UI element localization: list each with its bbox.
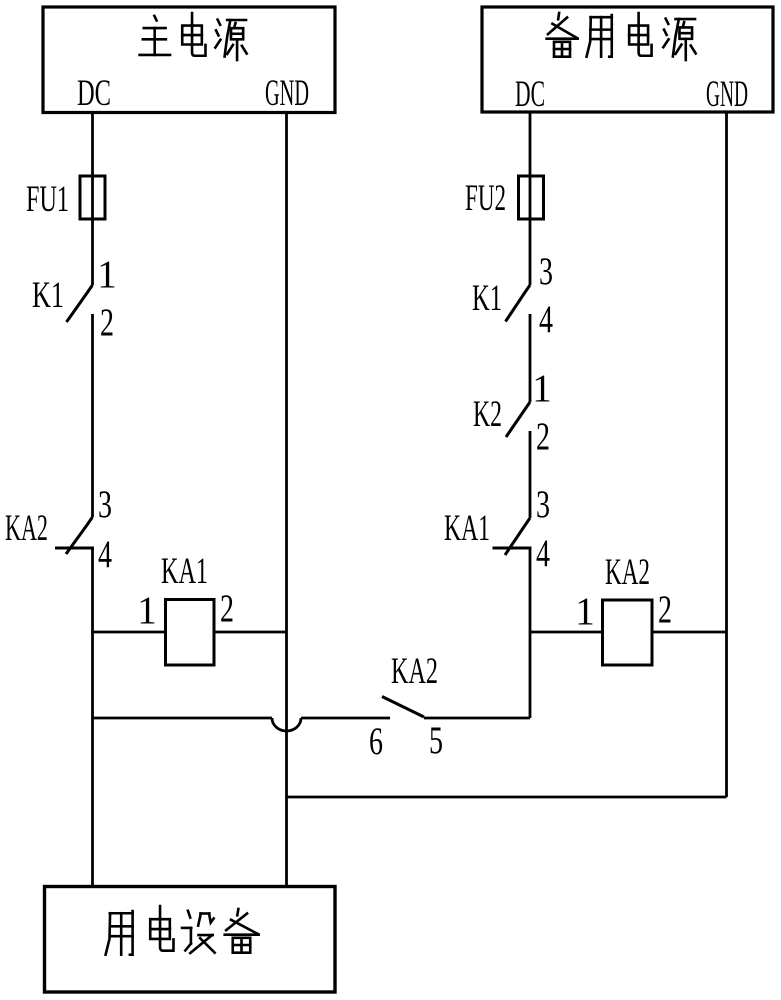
- wire contact 5 to right branch: [424, 717, 530, 720]
- wire KA2 coil right: [652, 631, 727, 634]
- svg-text:1: 1: [137, 589, 157, 632]
- char 电 (box2): [629, 13, 651, 56]
- wire K1-right lower: [529, 314, 532, 402]
- wire DC main down: [91, 112, 94, 285]
- svg-text:2: 2: [658, 588, 672, 631]
- svg-text:2: 2: [536, 415, 550, 458]
- wire GND tie horizontal: [287, 796, 727, 799]
- svg-text:4: 4: [98, 533, 112, 576]
- wire KA2 coil left: [530, 631, 603, 634]
- wire KA1 coil left: [93, 631, 166, 634]
- svg-text:K2: K2: [473, 394, 502, 435]
- power source box 主电源: [43, 7, 335, 113]
- svg-text:1: 1: [575, 590, 595, 633]
- svg-text:3: 3: [536, 483, 550, 526]
- svg-text:KA2: KA2: [391, 651, 438, 692]
- char 源 (box1): [215, 20, 246, 60]
- svg-text:FU2: FU2: [465, 178, 506, 219]
- svg-text:3: 3: [539, 250, 553, 293]
- wire hop to contact 6: [301, 717, 390, 720]
- wire DC backup down: [529, 112, 532, 285]
- backup power box 备用电源: [482, 7, 773, 112]
- svg-text:6: 6: [369, 720, 383, 763]
- NC contact KA2 left crossbar: [55, 547, 94, 550]
- char 源 (box2): [663, 19, 695, 60]
- switch K1 right blade (contacts 3-4): [506, 285, 531, 322]
- wire hop over GND line: [272, 718, 301, 731]
- svg-text:4: 4: [539, 298, 553, 341]
- svg-text:K1: K1: [32, 275, 64, 316]
- wire K1-left lower: [91, 314, 94, 517]
- svg-text:KA2: KA2: [605, 552, 650, 593]
- svg-text:GND: GND: [706, 74, 748, 115]
- svg-text:DC: DC: [77, 73, 111, 114]
- char 设 (box3): [182, 911, 215, 953]
- svg-text:KA2: KA2: [5, 508, 48, 549]
- char 用 (box2): [587, 15, 612, 57]
- svg-text:GND: GND: [265, 73, 309, 114]
- svg-text:KA1: KA1: [444, 508, 490, 549]
- char 备 (box2): [547, 13, 578, 57]
- svg-text:2: 2: [220, 587, 234, 630]
- NC contact KA1 right crossbar: [493, 547, 532, 550]
- svg-text:4: 4: [536, 532, 550, 575]
- svg-text:KA1: KA1: [161, 551, 208, 592]
- wire KA1 coil right: [214, 631, 287, 634]
- char 电 (box3): [150, 906, 173, 951]
- svg-text:3: 3: [98, 483, 112, 526]
- wire GND backup down: [725, 112, 728, 797]
- svg-text:DC: DC: [515, 74, 545, 115]
- wire K2 lower: [529, 431, 532, 518]
- char 主 (main): [140, 16, 170, 55]
- changeover KA2 blade (contacts 6-5): [382, 697, 424, 718]
- char 电 (box1): [182, 13, 205, 56]
- wire right branch lower: [529, 548, 532, 718]
- svg-text:FU1: FU1: [26, 179, 69, 220]
- char 备 (box3): [225, 909, 259, 953]
- NC contact KA2 left blade: [66, 517, 93, 554]
- svg-text:2: 2: [100, 301, 114, 344]
- svg-text:K1: K1: [472, 278, 502, 319]
- relay coil KA1: [166, 600, 215, 666]
- NC contact KA1 right blade: [505, 518, 530, 555]
- fuse FU2: [519, 176, 544, 219]
- load box 用电设备: [45, 887, 336, 993]
- fuse FU1: [80, 176, 105, 219]
- svg-text:5: 5: [429, 719, 443, 762]
- switch K1 left blade (contacts 1-2): [67, 285, 93, 322]
- wire GND main down: [285, 112, 288, 886]
- svg-text:1: 1: [97, 253, 117, 296]
- relay coil KA2: [603, 600, 653, 665]
- char 用 (box3): [106, 911, 133, 955]
- wire left branch lower: [91, 548, 94, 886]
- svg-text:1: 1: [532, 367, 552, 410]
- wire changeover left segment: [93, 717, 273, 720]
- switch K2 blade (contacts 1-2): [506, 402, 530, 437]
